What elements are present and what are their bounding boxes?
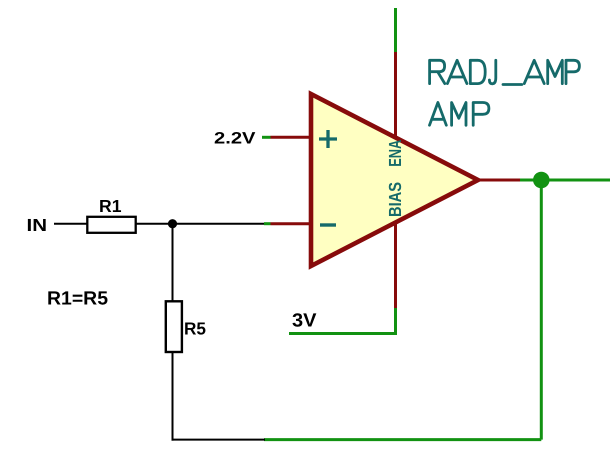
junction node A (black dot) (168, 219, 177, 228)
wire stub minus (green) (264, 222, 271, 225)
junction OUT (green dot) (533, 172, 550, 189)
op-amp U1 minus input marker (320, 223, 336, 226)
wire VTOP (green, top vertical) (394, 8, 397, 53)
op-amp U1 minus input pin (red) (271, 222, 312, 225)
wire OUT bottom (green) (264, 438, 541, 441)
op-amp U1 plus input pin (red) (271, 136, 312, 139)
label AMP (430, 103, 489, 126)
op-amp U1 top pin (V+) (394, 52, 397, 138)
wire stub plus (green) (262, 136, 271, 139)
resistor R1 (87, 217, 135, 233)
svg-text:IN: IN (27, 215, 48, 235)
wire OUT down (green) (540, 180, 543, 440)
op-amp U1 body (311, 94, 478, 266)
resistor R5 (166, 301, 182, 352)
svg-text:R1=R5: R1=R5 (47, 288, 108, 309)
svg-text:3V: 3V (292, 310, 317, 331)
wire bottom feedback (black) (172, 439, 266, 441)
op-amp U1 output pin (red) (478, 179, 520, 182)
svg-text:R5: R5 (184, 319, 206, 339)
wire OUT right (green) (520, 179, 610, 182)
op-amp U1 bottom pin (BIAS) (394, 223, 397, 310)
svg-text:R1: R1 (99, 196, 122, 216)
svg-text:BIAS: BIAS (385, 182, 405, 217)
wire IN row (black) (54, 223, 265, 225)
svg-text:2.2V: 2.2V (214, 130, 256, 148)
op-amp U1 plus input marker (319, 137, 337, 140)
wire feedback vertical (black) (172, 224, 174, 441)
label RADJ_AMP (430, 60, 580, 84)
wire 3V net (green) (289, 308, 396, 334)
svg-text:ENA: ENA (385, 140, 405, 167)
